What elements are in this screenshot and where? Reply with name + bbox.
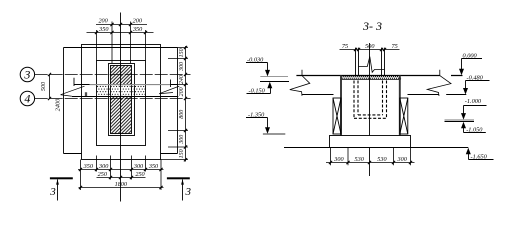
- svg-text:200: 200: [98, 18, 108, 25]
- svg-text:-1.650: -1.650: [471, 154, 488, 161]
- svg-text:300: 300: [397, 156, 408, 163]
- svg-text:300: 300: [179, 135, 185, 145]
- svg-text:300: 300: [179, 62, 185, 72]
- svg-text:-0.480: -0.480: [467, 74, 484, 81]
- svg-text:350: 350: [98, 26, 109, 33]
- svg-text:200: 200: [179, 87, 185, 96]
- svg-text:2400: 2400: [55, 98, 62, 111]
- svg-text:530: 530: [355, 156, 365, 163]
- svg-text:350: 350: [83, 163, 94, 170]
- svg-text:250: 250: [135, 171, 145, 178]
- svg-text:300: 300: [333, 156, 344, 163]
- svg-text:75: 75: [392, 43, 398, 50]
- svg-text:300: 300: [98, 163, 109, 170]
- svg-text:3: 3: [23, 68, 30, 82]
- svg-text:-1.350: -1.350: [248, 112, 265, 119]
- svg-text:500: 500: [365, 43, 375, 50]
- svg-text:300: 300: [133, 163, 144, 170]
- svg-text:3- 3: 3- 3: [362, 19, 382, 33]
- svg-text:150: 150: [179, 48, 185, 57]
- svg-text:4: 4: [24, 92, 30, 106]
- svg-text:3: 3: [184, 186, 191, 198]
- svg-text:75: 75: [342, 43, 348, 50]
- svg-text:0.000: 0.000: [463, 52, 478, 59]
- svg-text:800: 800: [179, 110, 185, 119]
- svg-text:350: 350: [132, 26, 143, 33]
- svg-text:530: 530: [377, 156, 387, 163]
- svg-text:240: 240: [178, 75, 185, 84]
- svg-text:250: 250: [98, 171, 108, 178]
- svg-text:500: 500: [40, 81, 47, 91]
- svg-text:200: 200: [133, 18, 143, 25]
- svg-text:-0.150: -0.150: [249, 88, 266, 95]
- svg-text:150: 150: [179, 149, 185, 158]
- svg-text:3: 3: [49, 186, 56, 198]
- svg-text:-1.000: -1.000: [465, 98, 482, 105]
- svg-text:-1.050: -1.050: [466, 126, 483, 133]
- svg-text:350: 350: [148, 163, 159, 170]
- svg-text:1800: 1800: [115, 181, 128, 188]
- svg-text:-0.030: -0.030: [247, 57, 264, 64]
